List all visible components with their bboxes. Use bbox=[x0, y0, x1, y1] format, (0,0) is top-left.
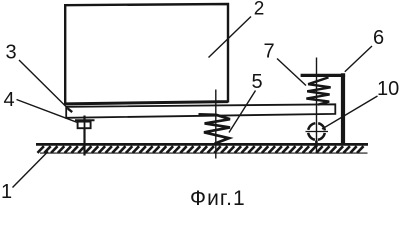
leader 10 bbox=[322, 96, 378, 129]
svg-text:5: 5 bbox=[252, 71, 263, 93]
leader 2 bbox=[209, 17, 252, 58]
spring 7 centerline bbox=[316, 58, 318, 153]
box 2 bottom edge thickening bbox=[66, 102, 229, 104]
ground hatching bbox=[36, 144, 368, 153]
spring 5 bbox=[199, 114, 231, 143]
svg-text:1: 1 bbox=[1, 181, 12, 203]
svg-text:Фиг.1: Фиг.1 bbox=[190, 187, 246, 207]
leader 7 bbox=[277, 59, 306, 86]
platform 3 bbox=[66, 104, 335, 118]
spring 5 centerline bbox=[215, 90, 217, 159]
leader 3 bbox=[19, 60, 72, 112]
leader 1 bbox=[13, 152, 49, 188]
svg-text:7: 7 bbox=[264, 41, 275, 63]
bracket 6 wall bbox=[341, 73, 345, 144]
svg-text:3: 3 bbox=[6, 41, 17, 63]
leader 5 bbox=[229, 91, 256, 133]
svg-text:6: 6 bbox=[373, 27, 384, 49]
svg-text:4: 4 bbox=[4, 89, 15, 111]
bracket 6 top plate bbox=[301, 74, 346, 77]
svg-text:2: 2 bbox=[254, 0, 265, 19]
svg-text:10: 10 bbox=[377, 78, 399, 100]
leader 4 bbox=[17, 100, 78, 123]
box 2 bbox=[65, 4, 228, 104]
support foot 4 bbox=[75, 116, 95, 156]
leader 6 bbox=[345, 46, 372, 72]
spring 7 bbox=[306, 77, 330, 104]
circle 10 (center mark) bbox=[306, 122, 329, 147]
